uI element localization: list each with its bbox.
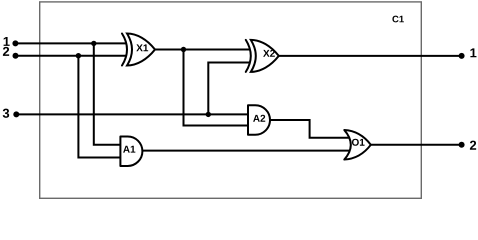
- wire node input 3 up to X2 lower input: [208, 63, 250, 115]
- wire A1 output to O1 lower input: [141, 150, 350, 152]
- xor gate X1: [122, 34, 155, 66]
- wire X2 output to terminal 1: [278, 55, 462, 57]
- junction node on input 2: [76, 53, 81, 58]
- and gate A1: [120, 136, 142, 166]
- wire node input 1 down to A1 upper input: [94, 43, 121, 144]
- input terminal 2: [3, 47, 19, 59]
- or gate O1: [344, 130, 371, 160]
- wire input 2 to X1: [15, 55, 126, 57]
- wire node X1 output down to A2 lower input: [184, 50, 249, 126]
- input terminal 1: [4, 37, 19, 46]
- input terminal 3: [3, 109, 20, 118]
- wire X1 output to X2 upper input: [154, 49, 250, 51]
- wire O1 output to terminal 2: [369, 144, 462, 146]
- wire node input 2 down to A1 lower input: [78, 56, 120, 158]
- junction node on X1 output: [181, 47, 186, 52]
- output terminal 2: [459, 141, 477, 150]
- enclosure box C1: [40, 2, 422, 198]
- wire input 1 to X1: [15, 42, 126, 44]
- wire input 3 to A2: [16, 113, 248, 115]
- label C1: [392, 16, 403, 23]
- xor gate X2: [246, 40, 279, 72]
- junction node on input 3: [206, 112, 211, 117]
- and gate A2: [248, 105, 270, 135]
- output terminal 1: [459, 48, 477, 59]
- junction node on input 1: [91, 41, 96, 46]
- wire A2 output to O1 upper input: [268, 120, 350, 138]
